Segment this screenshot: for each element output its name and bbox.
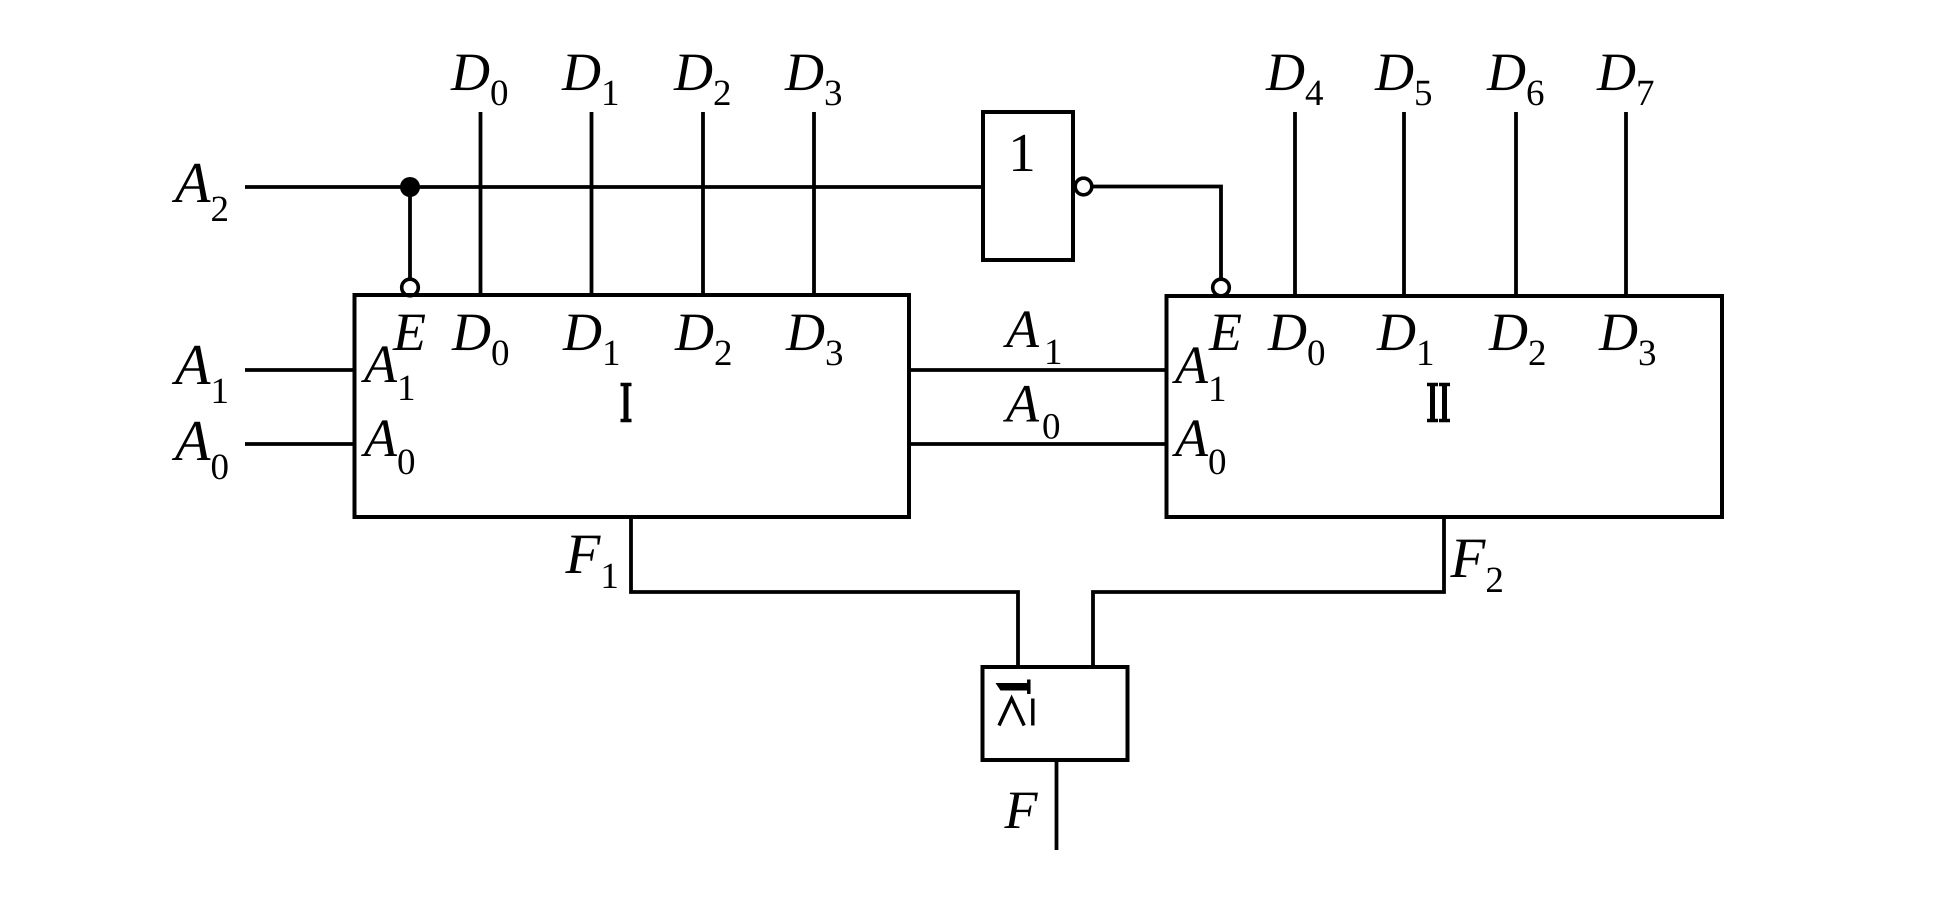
MUX II pin label D2 xyxy=(1488,302,1547,374)
svg-text:A0: A0 xyxy=(1172,408,1227,483)
svg-text:F2: F2 xyxy=(1450,527,1504,601)
wire F output xyxy=(1055,760,1059,850)
wire A0 input xyxy=(245,442,355,446)
svg-text:D6: D6 xyxy=(1486,42,1545,114)
wire A1 input xyxy=(245,368,355,372)
label D3 xyxy=(784,42,843,114)
svg-text:D3: D3 xyxy=(784,42,843,114)
svg-text:D0: D0 xyxy=(1267,302,1326,374)
svg-text:D1: D1 xyxy=(562,302,621,374)
label D0 xyxy=(450,42,509,114)
svg-text:D0: D0 xyxy=(451,302,510,374)
wire D2 input xyxy=(701,112,705,295)
wire D0 input xyxy=(479,112,483,295)
svg-text:D3: D3 xyxy=(1598,302,1657,374)
wire D4 input xyxy=(1293,112,1297,296)
label F output xyxy=(1004,780,1039,840)
label D5 xyxy=(1374,42,1433,114)
wire inverter output to E of MUX II xyxy=(1092,187,1221,280)
MUX I pin label D1 xyxy=(562,302,621,374)
label A2 xyxy=(171,150,229,230)
MUX I pin label D0 xyxy=(451,302,510,374)
wire D5 input xyxy=(1402,112,1406,296)
node junction on A2 wire xyxy=(400,177,420,197)
wire A0 between MUX I and MUX II xyxy=(909,442,1167,446)
label A1 between boxes xyxy=(1003,299,1063,373)
MUX II pin label E xyxy=(1208,302,1242,362)
svg-text:D0: D0 xyxy=(450,42,509,114)
label A1 input xyxy=(171,332,229,412)
wire junction to E of MUX I xyxy=(408,187,412,279)
svg-text:D2: D2 xyxy=(1488,302,1547,374)
wire A2 horizontal xyxy=(245,185,983,189)
active-low bubble at E input of MUX II xyxy=(1213,279,1230,296)
svg-text:E: E xyxy=(392,302,426,362)
svg-text:D4: D4 xyxy=(1265,42,1324,114)
svg-text:D1: D1 xyxy=(1376,302,1435,374)
inverter U1 box xyxy=(983,112,1073,260)
MUX II pin label A1 xyxy=(1172,335,1227,410)
MUX II box xyxy=(1167,296,1723,517)
MUX I pin label A0 xyxy=(361,408,416,483)
label F2 xyxy=(1450,527,1504,601)
MUX I numeral I xyxy=(621,383,632,423)
label A0 between boxes xyxy=(1003,374,1061,448)
wire F2 from MUX II to OR gate xyxy=(1093,517,1444,667)
MUX II numeral II xyxy=(1427,383,1450,423)
svg-text:E: E xyxy=(1208,302,1242,362)
svg-text:D1: D1 xyxy=(561,42,620,114)
OR gate rotated symbol >=1 : chevron and bar (rotated >=) xyxy=(999,699,1033,726)
MUX I pin label A1 xyxy=(361,334,416,409)
svg-text:1: 1 xyxy=(1008,122,1036,183)
svg-text:A1: A1 xyxy=(171,332,229,412)
label F1 xyxy=(565,523,619,597)
wire D7 input xyxy=(1624,112,1628,296)
svg-text:A0: A0 xyxy=(171,408,229,488)
svg-text:D2: D2 xyxy=(673,42,732,114)
MUX II pin label A0 xyxy=(1172,408,1227,483)
MUX I box xyxy=(355,295,910,517)
label D4 xyxy=(1265,42,1324,114)
OR gate U2 box xyxy=(983,667,1128,760)
inverter U1 label 1 xyxy=(1008,122,1036,183)
svg-text:A0: A0 xyxy=(1003,374,1061,448)
svg-text:D7: D7 xyxy=(1596,42,1655,114)
label D1 xyxy=(561,42,620,114)
svg-text:F: F xyxy=(1004,780,1039,840)
wire F1 from MUX I to OR gate xyxy=(631,517,1018,667)
label D2 xyxy=(673,42,732,114)
OR gate rotated symbol >=1 : bar (rotated digit 1) xyxy=(996,680,1030,695)
svg-text:D5: D5 xyxy=(1374,42,1433,114)
inverter output bubble xyxy=(1075,178,1092,195)
label D6 xyxy=(1486,42,1545,114)
wire D3 input xyxy=(812,112,816,295)
svg-text:F1: F1 xyxy=(565,523,619,597)
MUX II pin label D0 xyxy=(1267,302,1326,374)
MUX I pin label D2 xyxy=(674,302,733,374)
label D7 xyxy=(1596,42,1655,114)
wire A1 between MUX I and MUX II xyxy=(909,368,1167,372)
MUX II pin label D3 xyxy=(1598,302,1657,374)
svg-text:A1: A1 xyxy=(1003,299,1063,373)
svg-text:D3: D3 xyxy=(785,302,844,374)
MUX I pin label E xyxy=(392,302,426,362)
active-low bubble at E input of MUX I xyxy=(402,279,419,296)
wire D1 input xyxy=(590,112,594,295)
svg-text:A0: A0 xyxy=(361,408,416,483)
label A0 input xyxy=(171,408,229,488)
svg-text:A2: A2 xyxy=(171,150,229,230)
wire D6 input xyxy=(1514,112,1518,296)
MUX I pin label D3 xyxy=(785,302,844,374)
svg-text:D2: D2 xyxy=(674,302,733,374)
MUX II pin label D1 xyxy=(1376,302,1435,374)
